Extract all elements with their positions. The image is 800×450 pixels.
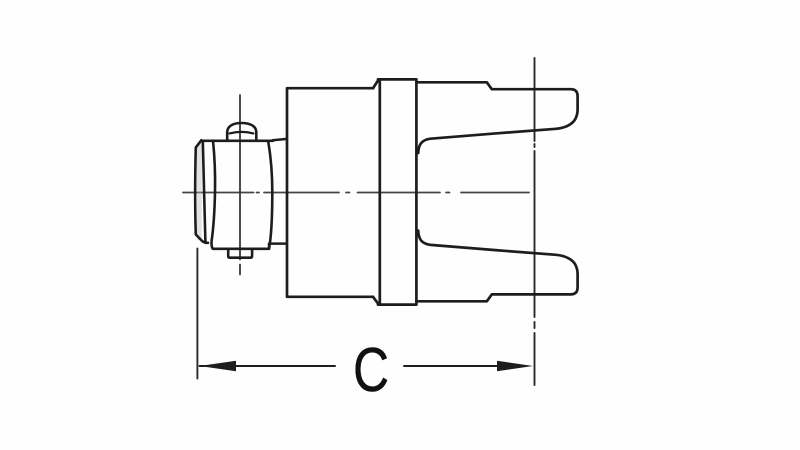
- push pin head (dome): [227, 123, 256, 141]
- dimension line left segment: [200, 365, 336, 367]
- horizontal centerline: [183, 192, 529, 194]
- pin vertical centerline: [239, 95, 241, 275]
- top fork arm: [417, 82, 578, 153]
- pin bottom tab: [228, 249, 252, 258]
- main cylindrical body: [287, 80, 379, 304]
- left end cap (washer): [197, 143, 202, 240]
- right arrowhead: [497, 361, 533, 371]
- bottom fork arm: [417, 231, 578, 302]
- left arrowhead: [200, 361, 237, 371]
- left dimension extension line: [196, 249, 198, 379]
- svg-text:C: C: [353, 335, 389, 405]
- shaft step between collar and body: [269, 139, 287, 249]
- dimension line right segment: [404, 365, 500, 367]
- flange: [378, 79, 416, 304]
- collar (sliding lock collar): [201, 141, 272, 249]
- fork vertical centerline (also right dimension extension line): [534, 58, 536, 385]
